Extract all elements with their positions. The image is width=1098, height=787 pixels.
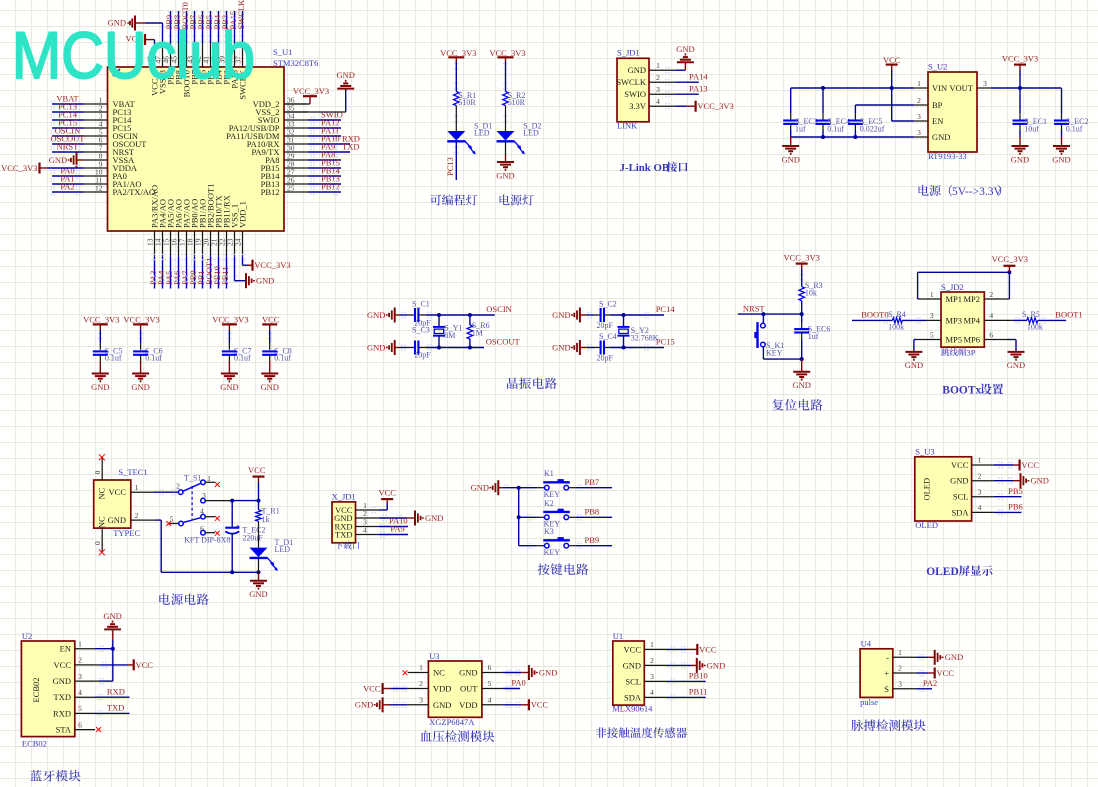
svg-text:VCC: VCC bbox=[136, 660, 154, 670]
svg-text:1: 1 bbox=[978, 456, 982, 465]
svg-text:VCC_3V3: VCC_3V3 bbox=[293, 86, 329, 96]
svg-text:pulse: pulse bbox=[860, 697, 878, 707]
svg-text:OLED: OLED bbox=[926, 566, 959, 578]
title 电源电路 bbox=[159, 594, 208, 606]
power VCC_3V3 at U1 pin36 VDD_2 bbox=[284, 86, 329, 104]
svg-text:10k: 10k bbox=[805, 288, 817, 297]
wire NRST bbox=[738, 301, 804, 316]
wire S_JD2 pin5 to GND bbox=[914, 340, 941, 352]
svg-text:GND: GND bbox=[367, 310, 385, 320]
U1s pin 1 VCC bbox=[624, 640, 667, 654]
svg-text:MCUclub: MCUclub bbox=[12, 18, 255, 92]
svg-text:3.3V: 3.3V bbox=[629, 101, 647, 111]
power GND at U1 pin47 bbox=[108, 16, 163, 44]
S_U3 pin 3 SCL bbox=[953, 487, 994, 501]
svg-text:S_C1: S_C1 bbox=[412, 299, 430, 308]
U1 pin 42 PB6 bbox=[194, 11, 208, 85]
wire GND rail bbox=[791, 135, 914, 139]
svg-text:EN: EN bbox=[932, 116, 943, 126]
U1s pin 2 GND bbox=[623, 656, 667, 670]
designator S_U2 bbox=[928, 62, 947, 72]
svg-text:PB7: PB7 bbox=[585, 477, 600, 487]
power GND below S_JD2 pin5 bbox=[905, 352, 923, 370]
svg-text:1uf: 1uf bbox=[795, 125, 806, 134]
sensor U3 XGZP6847A body bbox=[428, 661, 482, 717]
svg-text:BOOT1: BOOT1 bbox=[1055, 310, 1082, 320]
svg-text:K2: K2 bbox=[544, 499, 554, 508]
svg-text:3: 3 bbox=[930, 311, 934, 320]
svg-text:VCC: VCC bbox=[699, 644, 717, 654]
title 脉搏检测模块 bbox=[851, 719, 925, 731]
svg-text:SCL: SCL bbox=[953, 492, 969, 502]
no connect X at U3 pin1 bbox=[403, 670, 408, 675]
svg-text:OSCOUT: OSCOUT bbox=[486, 337, 521, 347]
svg-text:PC13: PC13 bbox=[445, 157, 455, 176]
svg-text:S_U2: S_U2 bbox=[928, 62, 947, 72]
svg-text:3: 3 bbox=[917, 112, 921, 121]
LED T_D1 bbox=[250, 521, 294, 570]
svg-text:VCC: VCC bbox=[363, 683, 381, 693]
svg-text:OLED: OLED bbox=[915, 520, 938, 530]
resistor S_R2 510R bbox=[503, 91, 526, 107]
power GND below S_JD2 pin6 bbox=[1007, 352, 1025, 370]
power VCC_3V3 above S_C7 bbox=[212, 315, 248, 350]
push button K2 KEY bbox=[519, 499, 576, 529]
svg-text:MP3: MP3 bbox=[946, 315, 963, 325]
svg-text:MP2: MP2 bbox=[963, 294, 980, 304]
U1 pin 45 PB8 bbox=[170, 11, 184, 85]
svg-text:12: 12 bbox=[95, 184, 103, 193]
power GND below S_C6 bbox=[131, 355, 149, 392]
U2 pin 1 EN bbox=[60, 639, 95, 653]
svg-text:2: 2 bbox=[917, 96, 921, 105]
svg-text:3: 3 bbox=[898, 680, 902, 689]
svg-text:S_C3: S_C3 bbox=[412, 325, 430, 334]
U1 pin 21 PB10/TX bbox=[210, 195, 224, 288]
U1 pin 17 PA7/AO bbox=[178, 199, 192, 288]
title 下载口 bbox=[335, 542, 359, 550]
svg-text:OUT: OUT bbox=[460, 684, 478, 694]
svg-text:VCC_3V3: VCC_3V3 bbox=[697, 101, 733, 111]
designator U3 bbox=[429, 651, 439, 661]
wire U2 pin1 EN junction bbox=[95, 645, 115, 652]
svg-text:U1: U1 bbox=[613, 631, 623, 641]
svg-text:MP1: MP1 bbox=[946, 294, 963, 304]
U1 pin 33 PA12/USB/DP bbox=[229, 117, 341, 133]
svg-text:S_C2: S_C2 bbox=[599, 299, 617, 308]
title 可编程灯 bbox=[430, 194, 477, 205]
svg-text:S_U3: S_U3 bbox=[915, 446, 934, 456]
U4 pin 2 + bbox=[884, 664, 916, 678]
value XGZP6847A bbox=[429, 717, 475, 727]
svg-text:NC: NC bbox=[97, 516, 107, 528]
capacitor S_C5 0.1uf bbox=[93, 346, 123, 362]
svg-text:VCC: VCC bbox=[531, 700, 549, 710]
value RT9193-33 bbox=[928, 151, 967, 161]
sensor U4 pulse body bbox=[860, 649, 893, 698]
resistor S_R3 10k bbox=[799, 281, 823, 301]
svg-text:U4: U4 bbox=[861, 638, 872, 648]
svg-text:KEY: KEY bbox=[766, 349, 783, 358]
svg-text:GND: GND bbox=[367, 342, 385, 352]
svg-text:S_R5: S_R5 bbox=[1022, 310, 1040, 319]
U1s pin 3 SCL bbox=[625, 672, 666, 686]
svg-text:20pF: 20pF bbox=[597, 321, 614, 330]
capacitor S_C4 20pF bbox=[594, 332, 617, 363]
title J-Link OB接口 bbox=[620, 162, 688, 174]
svg-text:U3: U3 bbox=[429, 651, 439, 661]
designator S_TEC1 bbox=[118, 467, 147, 477]
display S_U3 OLED body bbox=[915, 457, 972, 521]
svg-text:2: 2 bbox=[78, 656, 82, 665]
svg-text:TXD: TXD bbox=[107, 703, 124, 713]
svg-text:VCC_3V3: VCC_3V3 bbox=[1, 163, 37, 173]
net PA2 wire bbox=[917, 678, 938, 692]
svg-text:0.1uf: 0.1uf bbox=[827, 125, 844, 134]
svg-text:GND: GND bbox=[1052, 154, 1070, 164]
value KFT DIP-8X8 bbox=[184, 535, 230, 544]
svg-text:VCC: VCC bbox=[937, 668, 955, 678]
U1 pin 20 PB2/BOOT1 bbox=[202, 184, 216, 289]
power GND left of S_C3 bbox=[367, 340, 408, 355]
svg-text:PB11: PB11 bbox=[689, 687, 708, 697]
svg-text:S_TEC1: S_TEC1 bbox=[118, 467, 147, 477]
svg-text:OSCIN: OSCIN bbox=[486, 304, 512, 314]
U2 pin 4 TXD bbox=[54, 688, 95, 702]
capacitor T_EC2 220uF bbox=[225, 501, 265, 573]
designator U2 bbox=[22, 631, 32, 641]
power GND at U3 pin6 bbox=[503, 665, 558, 680]
svg-text:SDA: SDA bbox=[624, 692, 642, 702]
svg-text:GND: GND bbox=[945, 652, 963, 662]
power GND at MLX pin2 bbox=[667, 658, 726, 673]
resistor S_R5 100k bbox=[1022, 310, 1043, 332]
wire PC14 bbox=[611, 304, 676, 318]
svg-text:3: 3 bbox=[656, 85, 660, 94]
svg-text:GND: GND bbox=[552, 310, 570, 320]
push button S_K1 KEY bbox=[754, 314, 784, 359]
svg-text:2: 2 bbox=[656, 73, 660, 82]
U1 pin 14 PA4/AO bbox=[154, 199, 168, 288]
designator S_U3 bbox=[915, 446, 934, 456]
power GND at U1 pin35 VSS_2 bbox=[284, 70, 355, 112]
wire S_TEC1 pin1 to switch bbox=[153, 489, 178, 496]
U1s pin 4 SDA bbox=[624, 688, 667, 702]
power GND above U2 bbox=[103, 611, 121, 681]
power GND left of S_C2 bbox=[552, 308, 594, 323]
sensor U1 MLX90614 body bbox=[613, 641, 645, 705]
net PA9 wire bbox=[379, 524, 408, 538]
net PA0 wire bbox=[503, 678, 526, 692]
svg-text:PC14: PC14 bbox=[656, 304, 676, 314]
svg-text:GND: GND bbox=[355, 700, 373, 710]
svg-text:GND: GND bbox=[932, 132, 950, 142]
svg-text:RT9193-33: RT9193-33 bbox=[928, 151, 967, 161]
title 蓝牙模块 bbox=[30, 770, 80, 782]
svg-text:BOOTx: BOOTx bbox=[942, 385, 981, 397]
value 跳线帽3P bbox=[941, 347, 976, 357]
svg-text:GND: GND bbox=[623, 660, 641, 670]
U1 pin 48 VCC_3 bbox=[146, 44, 160, 96]
wire S_R1 to S_D1 bbox=[454, 106, 459, 132]
svg-text:1: 1 bbox=[930, 290, 934, 299]
value STM32C8T6 bbox=[273, 58, 318, 68]
wire S_R4 to S_JD2 pin3 bbox=[902, 317, 941, 324]
power VCC_3V3 above S_C5 bbox=[83, 315, 119, 350]
svg-text:2: 2 bbox=[176, 482, 180, 491]
svg-text:LINK: LINK bbox=[617, 121, 638, 131]
U1 pin 12 PA2/TX/AO bbox=[50, 181, 155, 197]
power VCC at U3 pin2 bbox=[363, 683, 408, 694]
svg-text:8M: 8M bbox=[444, 331, 455, 340]
svg-text:LED: LED bbox=[474, 128, 490, 137]
svg-text:3: 3 bbox=[917, 128, 921, 137]
U1 pin 18 PB0/AO bbox=[186, 199, 200, 289]
U1 pin 1 VBAT bbox=[50, 93, 135, 109]
svg-text:5: 5 bbox=[930, 330, 934, 339]
U1 pin 4 PC15 bbox=[50, 117, 131, 133]
svg-text:VCC_3V3: VCC_3V3 bbox=[254, 260, 290, 270]
svg-text:GND: GND bbox=[131, 382, 149, 392]
net PA10 wire bbox=[379, 516, 408, 530]
S_JD1 pin 3 SWIO bbox=[624, 85, 674, 99]
net PA14 wire bbox=[675, 72, 709, 83]
svg-text:U2: U2 bbox=[22, 631, 32, 641]
connector S_JD1 LINK body bbox=[617, 58, 649, 122]
U1 pin 44 BOOT0 bbox=[178, 2, 192, 97]
svg-text:1: 1 bbox=[78, 639, 82, 648]
power VCC at S_U3 pin1 bbox=[994, 460, 1039, 471]
power VCC at X_JD1 pin1 bbox=[371, 488, 396, 514]
svg-text:TXD: TXD bbox=[335, 530, 352, 540]
svg-text:PA13: PA13 bbox=[689, 84, 708, 94]
svg-text:GND: GND bbox=[471, 483, 489, 493]
U2 pin 3 GND bbox=[53, 672, 95, 686]
S_JD1 pin 4 3.3V bbox=[629, 97, 674, 111]
wire S_JD2 pin4 to S_R5 bbox=[984, 317, 1027, 324]
U1 pin 38 PA15 bbox=[226, 11, 240, 89]
S_TEC1 pin 1 VCC bbox=[109, 483, 154, 497]
U1 pin 37 SWCLK bbox=[234, 0, 248, 100]
MCUclub watermark logo bbox=[12, 18, 255, 92]
U1 pin 16 PA6/AO bbox=[170, 199, 184, 288]
svg-text:VCC: VCC bbox=[248, 465, 266, 475]
U1 pin 30 PA9/TX bbox=[251, 141, 359, 157]
svg-text:GND: GND bbox=[459, 668, 477, 678]
title OLED屏显示 bbox=[926, 565, 992, 578]
power GND below S_EC2 bbox=[1052, 137, 1070, 164]
svg-text:TXD: TXD bbox=[342, 141, 359, 151]
power VCC at U2 pin2 bbox=[95, 659, 153, 670]
svg-text:510R: 510R bbox=[508, 98, 526, 107]
wire VOUT rail bbox=[991, 86, 1062, 90]
svg-text:1uf: 1uf bbox=[808, 332, 819, 341]
power GND below reset bbox=[792, 359, 810, 390]
U1 pin 8 VSSA bbox=[84, 152, 136, 166]
S_U3 pin 1 VCC bbox=[951, 456, 994, 470]
U1 pin 31 PA10/RX bbox=[247, 133, 360, 149]
svg-text:GND: GND bbox=[781, 154, 799, 164]
svg-text:VCC_3V3: VCC_3V3 bbox=[83, 315, 119, 325]
label OLED inside bbox=[922, 478, 932, 501]
svg-text:VCC_3V3: VCC_3V3 bbox=[992, 254, 1028, 264]
net PB8 wire bbox=[576, 507, 612, 521]
power VCC_3V3 above S_R2 bbox=[489, 48, 525, 92]
net PB10 wire bbox=[667, 671, 708, 685]
svg-text:PA2: PA2 bbox=[60, 181, 74, 191]
grid snap dots below U1 bbox=[151, 254, 246, 283]
svg-text:1M: 1M bbox=[472, 328, 483, 337]
power GND at U4 pin1 bbox=[917, 650, 964, 665]
push button K3 KEY bbox=[519, 527, 576, 557]
svg-text:ECB02: ECB02 bbox=[31, 677, 41, 702]
net PB11 wire bbox=[667, 687, 708, 701]
svg-text:GND: GND bbox=[905, 360, 923, 370]
power GND below S_EC3 bbox=[781, 137, 799, 164]
push button K1 KEY bbox=[519, 469, 576, 499]
svg-text:PA2: PA2 bbox=[923, 678, 937, 688]
svg-text:0.022uf: 0.022uf bbox=[860, 125, 885, 134]
svg-text:J-Link OB: J-Link OB bbox=[620, 162, 670, 174]
svg-text:2: 2 bbox=[650, 656, 654, 665]
svg-text:BP: BP bbox=[932, 100, 943, 110]
svg-text:LED: LED bbox=[523, 128, 539, 137]
svg-text:GND: GND bbox=[707, 660, 725, 670]
designator S_JD1 bbox=[617, 47, 640, 57]
svg-text:GND: GND bbox=[433, 700, 451, 710]
U1 pin 15 PA5/AO bbox=[162, 199, 176, 288]
svg-text:4: 4 bbox=[363, 526, 367, 535]
U1 pin 6 OSCOUT bbox=[50, 133, 147, 149]
svg-text:2: 2 bbox=[978, 471, 982, 480]
U1 pin 3 PC14 bbox=[50, 109, 132, 125]
svg-text:VIN: VIN bbox=[932, 83, 947, 93]
net PB7 wire bbox=[576, 477, 612, 491]
power VCC_3V3 above S_R1 bbox=[440, 48, 476, 92]
power GND at S_JD1 pin1 bbox=[675, 44, 695, 70]
power GND left of keys bbox=[471, 480, 521, 495]
svg-text:6: 6 bbox=[488, 663, 492, 672]
U1 pin 43 PB7 bbox=[186, 11, 200, 85]
svg-text:KFT DIP-8X8: KFT DIP-8X8 bbox=[184, 535, 230, 544]
U1 pin 25 PB12 bbox=[261, 181, 341, 197]
svg-text:0.1uf: 0.1uf bbox=[145, 354, 162, 363]
power GND at S_U3 pin2 bbox=[994, 473, 1049, 488]
svg-text:S_JD1: S_JD1 bbox=[617, 47, 640, 57]
value TYPEC bbox=[113, 528, 140, 538]
svg-text:S_U1: S_U1 bbox=[273, 47, 292, 57]
title 电源灯 bbox=[500, 194, 534, 205]
power VCC at U4 pin2 bbox=[917, 668, 955, 679]
U1 pin 46 PB9 bbox=[162, 11, 176, 85]
power VCC_3V3 above S_R3 bbox=[784, 252, 820, 286]
svg-text:PB11: PB11 bbox=[220, 266, 230, 285]
svg-text:GND: GND bbox=[53, 676, 71, 686]
U1 pin 22 PB11/RX bbox=[218, 195, 232, 288]
svg-text:VCC_3V3: VCC_3V3 bbox=[212, 315, 248, 325]
U1 pin 26 PB13 bbox=[261, 173, 341, 189]
wire S_R2 to S_D2 bbox=[503, 106, 508, 132]
value OLED bbox=[915, 520, 938, 530]
svg-text:TYPEC: TYPEC bbox=[113, 528, 140, 538]
svg-text:PA9: PA9 bbox=[390, 524, 404, 534]
capacitor S_EC5 0.022uf bbox=[848, 113, 885, 137]
switch T_S1 bbox=[166, 474, 219, 536]
svg-text:PB10: PB10 bbox=[689, 671, 708, 681]
svg-text:XGZP6847A: XGZP6847A bbox=[429, 717, 475, 727]
svg-text:4: 4 bbox=[989, 311, 993, 320]
svg-text:4: 4 bbox=[200, 507, 204, 516]
U1 pin 9 VDDA bbox=[84, 160, 138, 174]
U1 pin 24 VDD_1 bbox=[234, 201, 248, 257]
svg-text:4: 4 bbox=[488, 696, 492, 705]
svg-text:GND: GND bbox=[249, 589, 267, 599]
net PB6 wire bbox=[994, 502, 1023, 516]
U3 pins 2/5 VDD/OUT bbox=[408, 679, 503, 693]
X_JD1 pin 4 TXD bbox=[335, 526, 379, 540]
capacitor S_EC1 10uf bbox=[1013, 88, 1047, 137]
power VCC_3V3 above S_C6 bbox=[123, 315, 159, 350]
svg-text:VCC: VCC bbox=[951, 460, 969, 470]
svg-text:PA0: PA0 bbox=[511, 678, 525, 688]
svg-text:GND: GND bbox=[950, 476, 968, 486]
capacitor S_EC2 0.1uf bbox=[1054, 88, 1088, 137]
power GND at U1 pin23 VSS_1 bbox=[235, 257, 275, 289]
svg-text:6: 6 bbox=[78, 720, 82, 729]
designator S_U1 bbox=[273, 47, 292, 57]
svg-text:24: 24 bbox=[234, 238, 243, 246]
net PA13 wire bbox=[675, 84, 708, 95]
designator U4 bbox=[861, 638, 872, 648]
svg-text:SCL: SCL bbox=[625, 676, 641, 686]
svg-text:20pF: 20pF bbox=[597, 353, 614, 362]
svg-text:GND: GND bbox=[256, 276, 274, 286]
S_TEC1 pin 2 GND bbox=[108, 511, 156, 525]
svg-text:KEY: KEY bbox=[544, 548, 561, 557]
wire key bus vertical bbox=[517, 488, 521, 546]
svg-text:100k: 100k bbox=[888, 322, 904, 331]
svg-text:SWCLK: SWCLK bbox=[616, 77, 647, 87]
svg-text:PA14: PA14 bbox=[689, 72, 708, 82]
svg-text:VCC: VCC bbox=[378, 488, 396, 498]
svg-text:GND: GND bbox=[108, 515, 126, 525]
capacitor S_EC4 0.1uf bbox=[816, 88, 850, 137]
svg-text:PB5: PB5 bbox=[1008, 486, 1023, 496]
connector X_JD1 body bbox=[332, 502, 356, 543]
wire S_JD2 pin6 to GND bbox=[984, 340, 1016, 352]
svg-text:PB12: PB12 bbox=[261, 187, 280, 197]
label ECB02 inside bbox=[31, 677, 41, 702]
crystal S_Y1 8M bbox=[433, 315, 463, 348]
svg-text:RXD: RXD bbox=[107, 686, 125, 696]
capacitor S_C3 20pF bbox=[408, 325, 431, 359]
power GND below S_C5 bbox=[91, 355, 109, 392]
power VCC at U3 pin4 bbox=[503, 699, 549, 710]
capacitor S_EC6 1uf bbox=[794, 314, 830, 359]
svg-text:3: 3 bbox=[650, 672, 654, 681]
svg-text:GND: GND bbox=[91, 382, 109, 392]
svg-text:32.768K: 32.768K bbox=[631, 334, 659, 343]
wire OSCOUT bbox=[426, 337, 521, 351]
svg-text:VCC: VCC bbox=[109, 487, 127, 497]
svg-text:KEY: KEY bbox=[544, 490, 561, 499]
U2 pin 2 VCC bbox=[54, 656, 95, 670]
U1 pin 23 VSS_1 bbox=[226, 204, 240, 257]
U3 pins 3/4 GND/VDD bbox=[408, 696, 503, 710]
svg-text:0: 0 bbox=[93, 470, 102, 474]
svg-text:1: 1 bbox=[650, 640, 654, 649]
value ECB02 bbox=[22, 738, 47, 748]
